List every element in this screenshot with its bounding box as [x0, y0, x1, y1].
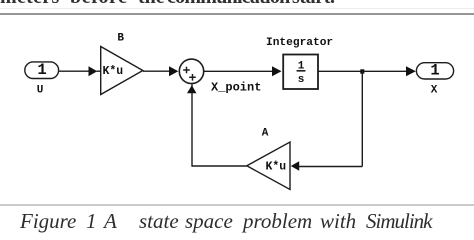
arrowhead into gain A — [291, 161, 299, 170]
gain A (triangle, pointing left) — [247, 142, 290, 190]
arrowhead into gain B — [89, 66, 98, 76]
output port X (oval block) — [416, 62, 453, 80]
feedback wire down from branch — [361, 71, 363, 166]
branch node (junction dot) — [360, 69, 364, 73]
arrowhead into sum — [169, 66, 178, 76]
arrowhead into integrator — [272, 66, 282, 76]
svg-text:1: 1 — [37, 61, 46, 79]
input port U (oval block) — [25, 61, 59, 79]
bottom rule above caption — [0, 204, 474, 206]
svg-text:Integrator: Integrator — [266, 37, 333, 49]
svg-text:s: s — [298, 74, 305, 86]
wire gain B to sum — [143, 70, 170, 72]
gain B (triangle) — [101, 47, 143, 95]
faint upper hairline — [0, 8, 474, 9]
top cut-off paragraph text — [0, 0, 474, 5]
horizontal rule under top text — [0, 13, 474, 15]
integrator block 1/s — [283, 55, 318, 90]
svg-text:X: X — [431, 85, 438, 97]
svg-text:1: 1 — [430, 62, 439, 80]
feedback wire up to sum — [191, 83, 193, 167]
sum junction — [179, 59, 203, 83]
arrowhead into output port — [406, 66, 416, 76]
svg-text:A: A — [262, 128, 269, 140]
arrowhead into sum bottom — [187, 85, 197, 93]
wire input port to gain B — [59, 70, 90, 72]
svg-text:K*u: K*u — [266, 161, 287, 174]
svg-text:K*u: K*u — [103, 65, 124, 78]
wire integrator to output port — [318, 70, 407, 72]
wire gain A to corner — [192, 165, 247, 167]
caption (cut off at bottom): Figure 1 A state space problem with Simulink — [0, 211, 474, 226]
feedback wire toward gain A — [299, 166, 362, 168]
svg-text:X_point: X_point — [211, 80, 261, 94]
wire sum to integrator — [204, 70, 273, 72]
svg-text:U: U — [37, 84, 44, 96]
svg-text:B: B — [117, 32, 124, 44]
